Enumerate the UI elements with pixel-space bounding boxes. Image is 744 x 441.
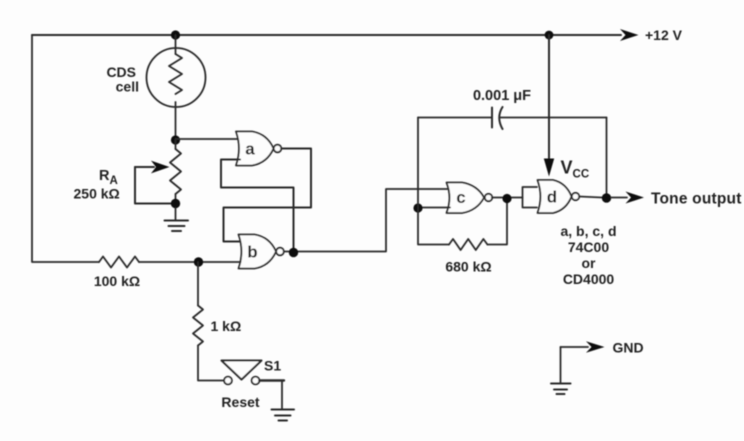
svg-text:Reset: Reset [221,394,259,410]
wire junction up to capacitor [417,118,419,209]
wire gate c lower input [418,207,450,209]
ground symbol bottom right [551,383,571,385]
node gate c output junction [502,194,511,203]
wire GND down [560,347,562,383]
nand gate b [239,235,277,269]
svg-text:Tone output: Tone output [651,191,742,208]
svg-text:100 kΩ: 100 kΩ [94,273,140,289]
svg-text:c: c [456,188,465,207]
tone output arrow [611,197,627,199]
+12V arrow [620,29,639,41]
wire junction to gate a upper input [176,138,239,140]
svg-text:cell: cell [116,79,139,95]
GND arrow [561,346,589,348]
wire left rail [32,35,99,262]
potentiometer RA 250k [175,140,177,149]
svg-text:a, b, c, d: a, b, c, d [560,223,616,239]
svg-text:a: a [245,140,255,159]
node top rail / Vcc junction [545,31,554,40]
wire gate a output to gate b input (cross coupling) [224,149,312,242]
photocell CDS cell [147,48,206,107]
svg-text:GND: GND [613,340,644,356]
svg-text:S1: S1 [264,358,281,374]
svg-text:250 kΩ: 250 kΩ [74,186,120,202]
svg-text:or: or [582,255,597,271]
resistor 1k [197,262,199,306]
gate d tied input box [523,187,538,208]
wire Vcc from +12V rail [548,35,550,161]
svg-text:d: d [547,188,557,207]
svg-text:0.001 μF: 0.001 μF [473,88,531,104]
wire RA wiper bracket [135,167,171,204]
node CDS / RA / gate-a junction [171,135,180,144]
RA wiper arrow [135,166,154,168]
resistor 680k feedback [418,208,449,245]
wire gate c output [492,197,523,199]
wire gate a lower input from gate b output [221,160,294,250]
svg-text:CD4000: CD4000 [563,271,615,287]
svg-text:b: b [247,243,257,262]
switch S1 pushbutton [224,377,232,385]
wire +12V top rail [32,34,621,36]
svg-text:+12 V: +12 V [645,27,683,43]
wire gate d output [579,197,602,198]
nand gate d [538,180,572,213]
wire switch to ground [259,379,284,381]
node 100k / 1k / gate b junction [194,257,203,266]
wire gate b output [284,189,450,252]
svg-text:74C00: 74C00 [568,239,609,255]
capacitor 0.001uF [418,117,492,119]
svg-text:680 kΩ: 680 kΩ [445,259,491,275]
nand gate c [447,183,485,214]
node top rail / CDS junction [171,30,180,39]
node gate b output junction [289,248,298,257]
nand gate a [236,132,274,166]
ground below S1 [272,409,295,411]
resistor 100k [99,257,139,268]
node RA bottom junction [171,199,180,208]
ground below RA [175,208,177,220]
Vcc arrow into gate d [544,159,554,177]
node tone output junction [602,193,611,202]
node capacitor / 680k / gate c junction [413,203,422,212]
svg-text:1 kΩ: 1 kΩ [211,318,242,334]
